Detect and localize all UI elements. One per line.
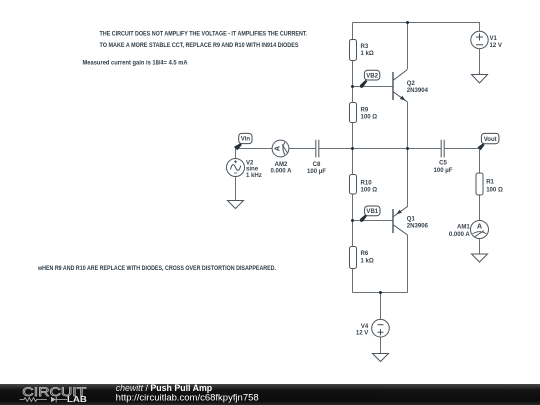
svg-text:100 Ω: 100 Ω xyxy=(361,188,378,194)
svg-text:Measured current gain is 18/4=: Measured current gain is 18/4= 4.5 mA xyxy=(83,59,188,66)
svg-text:Vin: Vin xyxy=(241,137,251,143)
svg-text:0.000 A: 0.000 A xyxy=(449,232,471,238)
svg-text:C5: C5 xyxy=(439,161,447,167)
svg-text:Q1: Q1 xyxy=(407,216,416,222)
svg-text:100 µF: 100 µF xyxy=(434,168,453,174)
svg-text:C8: C8 xyxy=(313,162,321,168)
svg-text:http://circuitlab.com/c68fkpyf: http://circuitlab.com/c68fkpyfjn758 xyxy=(116,393,259,403)
svg-text:1 kΩ: 1 kΩ xyxy=(361,51,374,57)
svg-text:2N3904: 2N3904 xyxy=(407,88,429,94)
svg-text:1 kHz: 1 kHz xyxy=(246,173,262,179)
svg-text:R3: R3 xyxy=(361,44,369,50)
svg-text:Vout: Vout xyxy=(484,137,497,143)
svg-text:A: A xyxy=(273,146,282,151)
svg-text:R10: R10 xyxy=(361,181,373,187)
svg-text:100 Ω: 100 Ω xyxy=(361,115,378,121)
svg-text:12 V: 12 V xyxy=(490,43,502,49)
svg-text:V1: V1 xyxy=(490,36,498,42)
svg-text:12 V: 12 V xyxy=(356,331,368,337)
svg-text:chewitt / Push Pull Amp: chewitt / Push Pull Amp xyxy=(116,383,213,393)
svg-text:sine: sine xyxy=(246,167,259,173)
svg-text:VB1: VB1 xyxy=(366,209,378,215)
svg-text:VB2: VB2 xyxy=(366,73,378,79)
svg-text:A: A xyxy=(477,222,482,231)
svg-text:V2: V2 xyxy=(246,160,254,166)
svg-text:wHEN R9 AND R10 ARE REPLACE WI: wHEN R9 AND R10 ARE REPLACE WITH DIODES,… xyxy=(37,265,276,272)
svg-text:LAB: LAB xyxy=(67,395,87,404)
svg-text:1 kΩ: 1 kΩ xyxy=(361,259,374,265)
svg-text:AM2: AM2 xyxy=(275,162,288,168)
svg-text:R6: R6 xyxy=(361,251,369,257)
svg-text:R1: R1 xyxy=(486,180,494,186)
svg-text:Q2: Q2 xyxy=(407,81,416,87)
svg-text:V4: V4 xyxy=(361,324,369,330)
svg-text:100 µF: 100 µF xyxy=(307,169,326,175)
svg-text:AM1: AM1 xyxy=(457,225,470,231)
svg-text:THE CIRCUIT DOES NOT AMPLIFY T: THE CIRCUIT DOES NOT AMPLIFY THE VOLTAGE… xyxy=(100,31,308,38)
svg-text:100 Ω: 100 Ω xyxy=(486,187,503,193)
svg-text:TO MAKE A MORE STABLE CCT, REP: TO MAKE A MORE STABLE CCT, REPLACE R9 AN… xyxy=(100,42,300,49)
svg-text:R9: R9 xyxy=(361,108,369,114)
svg-text:0.000 A: 0.000 A xyxy=(271,169,293,175)
svg-text:2N3906: 2N3906 xyxy=(407,223,429,229)
